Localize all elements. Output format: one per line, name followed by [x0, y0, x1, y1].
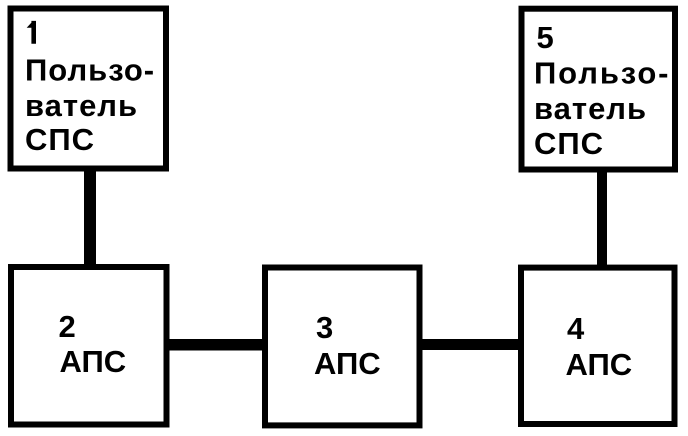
block 2 АПС (box) [11, 267, 167, 425]
block 4 АПС (box) [521, 268, 675, 424]
svg-text:3: 3 [316, 310, 333, 345]
svg-text:ватель: ватель [25, 88, 138, 123]
block 3 label text [314, 310, 381, 381]
wire block1-block2 (vertical) [84, 170, 96, 266]
block 1 label digit 1 [27, 21, 36, 44]
svg-text:АПС: АПС [566, 347, 633, 382]
wire block2-block3 (horizontal) [168, 339, 263, 351]
svg-text:АПС: АПС [314, 346, 381, 381]
block 3 АПС (box) [265, 268, 420, 426]
block 4 label text [566, 311, 633, 382]
svg-text:Пользо-: Пользо- [534, 56, 670, 91]
svg-text:СПС: СПС [534, 126, 604, 161]
block 1 Пользователь СПС (box) [11, 9, 167, 169]
svg-text:СПС: СПС [25, 122, 95, 157]
block 2 label text [59, 309, 127, 379]
svg-text:ватель: ватель [534, 91, 647, 126]
block 1 label text [25, 53, 155, 158]
svg-text:4: 4 [567, 311, 585, 346]
wire block3-block4 (horizontal) [421, 339, 519, 350]
svg-text:2: 2 [59, 309, 76, 344]
svg-text:5: 5 [537, 20, 555, 55]
wire block5-block4 (vertical) [597, 171, 607, 266]
svg-text:Пользо-: Пользо- [25, 53, 155, 88]
block 5 label text [534, 20, 670, 161]
svg-text:АПС: АПС [60, 344, 127, 379]
block 5 Пользователь СПС (box) [522, 9, 676, 170]
